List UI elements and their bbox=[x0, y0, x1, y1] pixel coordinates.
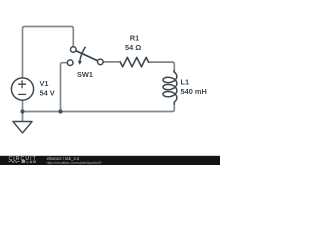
svg-text:54 V: 54 V bbox=[40, 89, 55, 98]
svg-text:SW1: SW1 bbox=[77, 70, 93, 79]
wire: R1 to L1 top bbox=[149, 62, 175, 71]
junction dot at V1 bottom bbox=[20, 109, 24, 113]
wire: switch left throw to bottom bus bbox=[61, 63, 68, 112]
wire: L1 bottom to bottom bus bbox=[23, 103, 175, 112]
lever bbox=[76, 51, 98, 61]
ground bbox=[13, 122, 32, 133]
svg-text:LAB: LAB bbox=[26, 159, 36, 164]
resistor R1 bbox=[120, 57, 148, 66]
actuator arrow bbox=[80, 47, 86, 62]
inductor L1 bbox=[163, 71, 177, 104]
wire: switch right throw to R1 bbox=[103, 61, 120, 63]
svg-text:54 Ω: 54 Ω bbox=[125, 43, 141, 52]
svg-text:R1: R1 bbox=[130, 34, 139, 43]
pole terminal bbox=[71, 47, 77, 53]
junction dot at switch branch bbox=[58, 109, 62, 113]
svg-text:V1: V1 bbox=[40, 79, 49, 88]
wire top: V1 top to switch common bbox=[23, 27, 74, 79]
right throw terminal bbox=[98, 59, 104, 65]
footer logo block bbox=[22, 160, 25, 163]
footer logo zigzag bbox=[8, 160, 19, 163]
footer bar bbox=[0, 156, 220, 165]
voltage source V1 bbox=[11, 78, 33, 100]
svg-text:540 mH: 540 mH bbox=[181, 87, 207, 96]
wire: V1 bottom lead bbox=[22, 101, 24, 122]
svg-text:L1: L1 bbox=[181, 78, 190, 87]
svg-text:http://circuitlab.com/c/pdhfdy: http://circuitlab.com/c/pdhfdyahtx29 bbox=[47, 161, 102, 165]
switch SW1 bbox=[67, 47, 103, 66]
left throw terminal bbox=[67, 60, 73, 66]
